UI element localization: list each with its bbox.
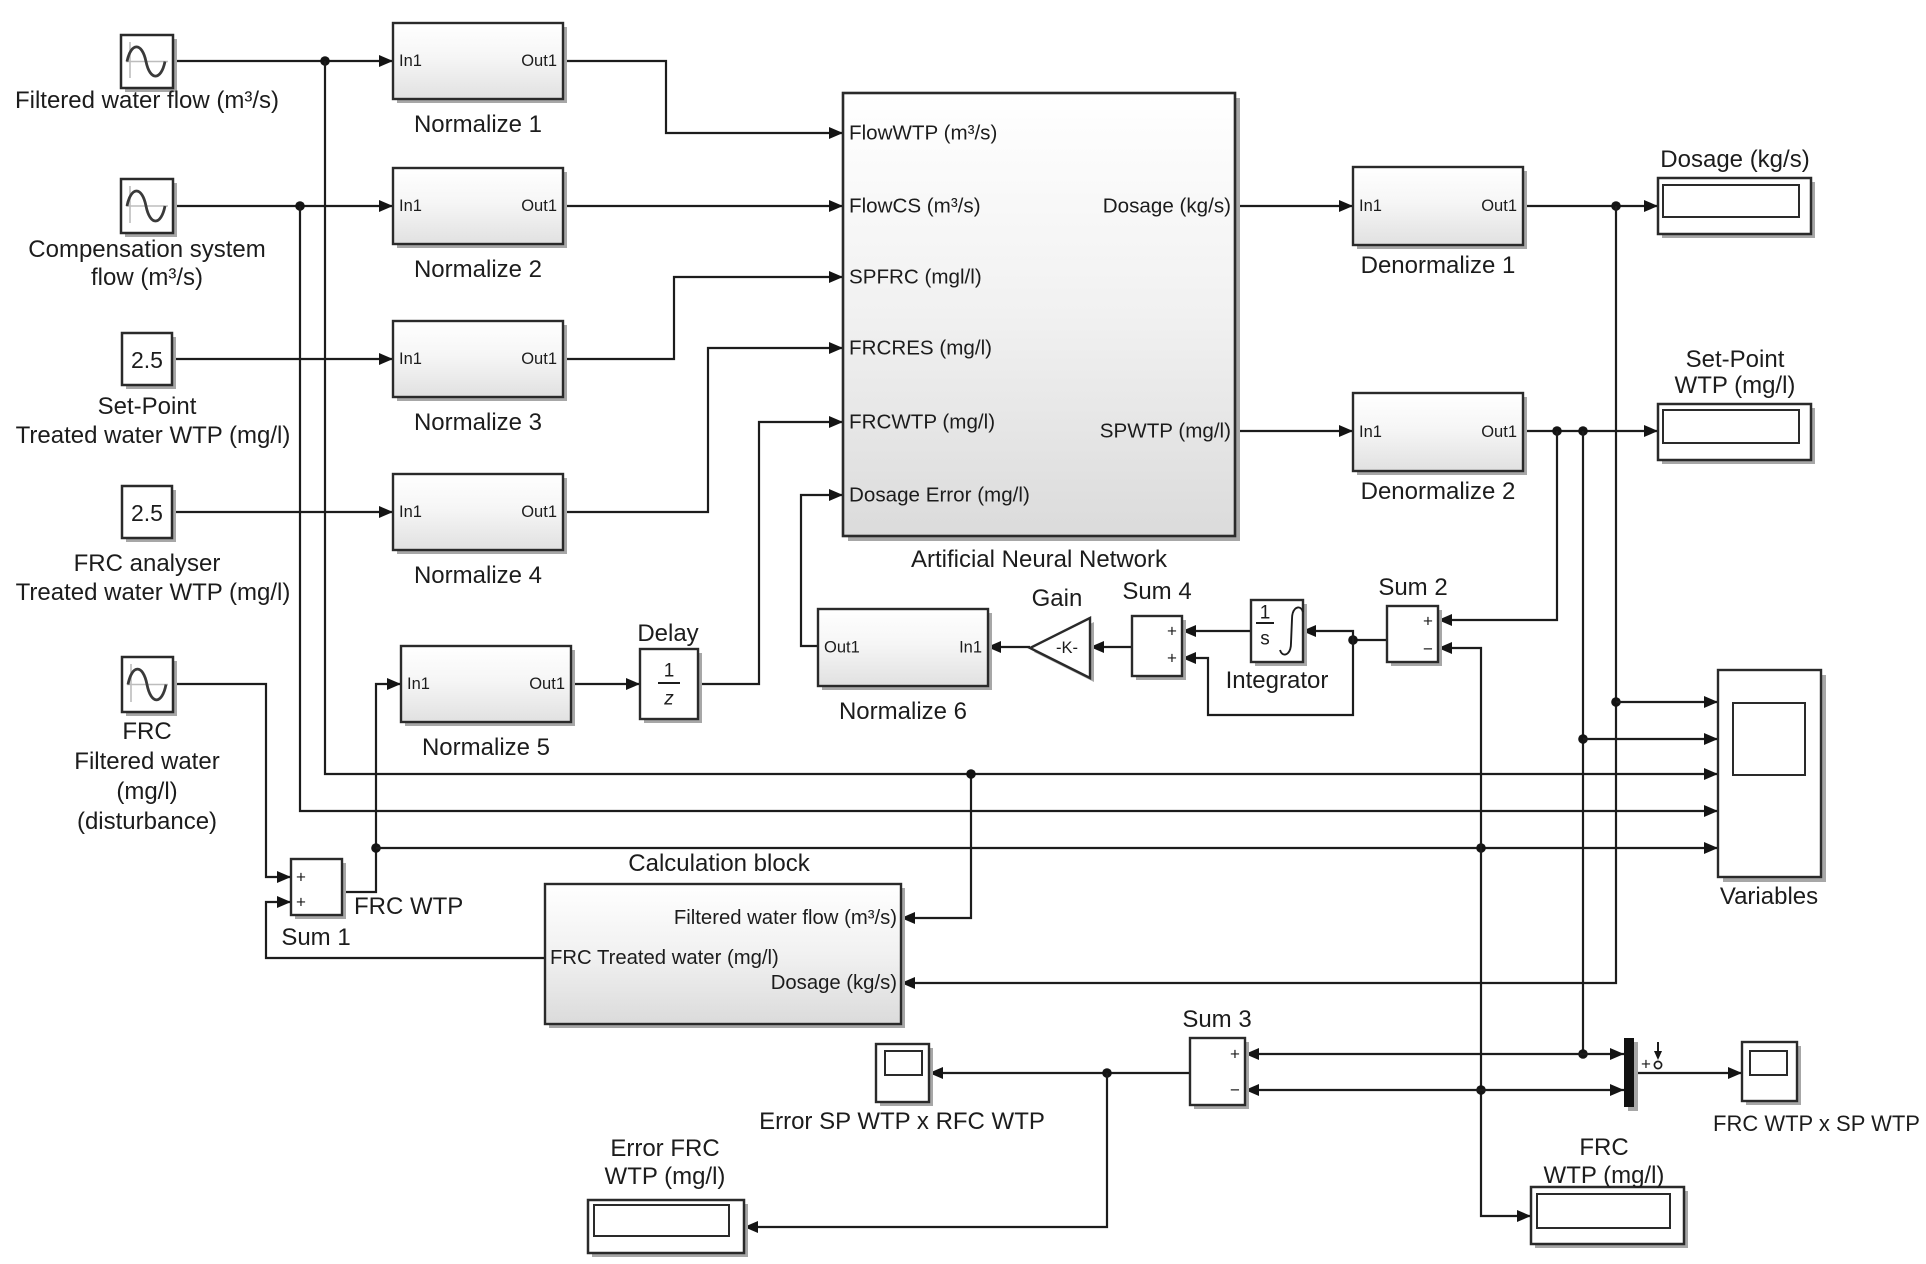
source block Compensation system flow (sine) [121, 179, 177, 237]
subsystem block Normalize 5 [401, 646, 575, 726]
wire: set-point branch to Variables input 2 [1583, 733, 1718, 745]
label Sum 1 [281, 924, 350, 951]
svg-text:+: + [1167, 622, 1177, 641]
svg-text:flow (m³/s): flow (m³/s) [91, 264, 203, 291]
svg-text:FRC WTP: FRC WTP [354, 893, 463, 920]
svg-text:FRC: FRC [122, 718, 171, 745]
label FRC analyser Treated water WTP [16, 550, 291, 606]
label Normalize 1 [414, 111, 542, 138]
label Filtered water flow [15, 87, 279, 114]
wire: feedback junction down to Sum 4 lower input [1182, 640, 1353, 715]
label Sum 4 [1122, 578, 1191, 605]
label Gain [1032, 585, 1083, 612]
wire: compensation branch down long line into Variables input 4 [300, 206, 1718, 817]
svg-text:WTP (mg/l): WTP (mg/l) [1675, 372, 1796, 399]
svg-text:Dosage (kg/s): Dosage (kg/s) [771, 972, 897, 994]
svg-text:FlowWTP (m³/s): FlowWTP (m³/s) [849, 122, 997, 145]
wire: FRC WTP branch up to Sum 2 minus input [1438, 642, 1481, 848]
wire: Delay to ANN FRCWTP [698, 416, 843, 684]
wire: Sum 1 output up to Normalize 5 In1 [342, 678, 401, 892]
wire: dosage branch down to Calculation block Dosage input [901, 206, 1621, 989]
subsystem block Calculation block [545, 884, 905, 1028]
svg-text:In1: In1 [399, 350, 422, 368]
wire: FRC WTP branch down to FRC WTP display [1476, 848, 1531, 1222]
wire: FRC WTP to Sum 3 minus input [1245, 1084, 1481, 1096]
wire: Normalize 3 to ANN SPFRC [563, 271, 843, 359]
wire: FRC WTP long line to Variables input 5 [376, 842, 1718, 854]
label Normalize 3 [414, 409, 542, 436]
label FRC WTP (mg/l) [1544, 1134, 1665, 1189]
wire: dosage branch to Variables input 1 [1616, 696, 1718, 708]
svg-text:FlowCS (m³/s): FlowCS (m³/s) [849, 195, 981, 218]
wire: ANN Dosage out to Denormalize 1 [1235, 200, 1353, 212]
wire: Gain output to Normalize 6 In1 [987, 641, 1030, 653]
svg-text:FRC analyser: FRC analyser [74, 550, 221, 577]
wire: FRC analyser constant to Normalize 4 [172, 506, 393, 518]
svg-text:FRC WTP x SP WTP: FRC WTP x SP WTP [1713, 1111, 1920, 1136]
svg-text:−: − [1423, 640, 1433, 659]
constant block Set-Point 2.5 [122, 333, 176, 389]
label Calculation block [628, 850, 810, 877]
wire: set-point branch down long vertical to Sum 3 level [1578, 431, 1588, 1059]
subsystem block Normalize 4 [393, 474, 567, 554]
wire: set-point branch down to Sum 2 plus input [1438, 431, 1557, 626]
subsystem block Denormalize 1 [1353, 167, 1527, 249]
source block FRC Filtered water disturbance (sine) [122, 657, 177, 716]
svg-text:In1: In1 [407, 675, 430, 693]
svg-text:SPFRC (mgl/l): SPFRC (mgl/l) [849, 266, 982, 289]
svg-text:Normalize 4: Normalize 4 [414, 562, 542, 589]
svg-text:Compensation system: Compensation system [28, 236, 265, 263]
svg-text:In1: In1 [1359, 197, 1382, 215]
svg-text:FRC: FRC [1579, 1134, 1628, 1161]
label Denormalize 1 [1361, 252, 1516, 279]
wire: Integrator output to Sum 4 upper input [1182, 625, 1251, 637]
wire: Normalize 6 to ANN Dosage Error [801, 489, 843, 646]
svg-text:In1: In1 [959, 639, 982, 657]
svg-text:+: + [296, 868, 306, 887]
constant block FRC analyser 2.5 [122, 486, 176, 542]
svg-text:Filtered water: Filtered water [74, 748, 219, 775]
scope block Error SP WTP x RFC WTP [876, 1044, 933, 1106]
display block FRC WTP (mg/l) [1531, 1187, 1688, 1248]
svg-text:Out1: Out1 [824, 639, 860, 657]
wire: Denormalize 1 to Dosage display [1523, 200, 1658, 212]
svg-text:Sum 3: Sum 3 [1182, 1006, 1251, 1033]
svg-text:+: + [1167, 649, 1177, 668]
source block Filtered water flow (sine) [121, 35, 177, 92]
svg-text:In1: In1 [1359, 423, 1382, 441]
svg-text:-K-: -K- [1056, 639, 1078, 657]
wire: filtered flow branch down to Calculation block input [901, 769, 976, 924]
svg-text:Normalize 2: Normalize 2 [414, 256, 542, 283]
svg-text:In1: In1 [399, 197, 422, 215]
display block Error FRC WTP (mg/l) [588, 1200, 748, 1257]
label Normalize 2 [414, 256, 542, 283]
svg-text:Dosage (kg/s): Dosage (kg/s) [1660, 146, 1809, 173]
label Normalize 6 [839, 698, 967, 725]
wire: junction to Integrator input [1302, 625, 1353, 640]
block Delay (1/z) [640, 649, 702, 723]
svg-text:Normalize 5: Normalize 5 [422, 734, 550, 761]
wire: FRC disturbance sine to Sum 1 input 1 [173, 684, 291, 883]
label Sum 3 [1182, 1006, 1251, 1033]
label Variables [1720, 883, 1818, 910]
svg-text:Normalize 1: Normalize 1 [414, 111, 542, 138]
sum block Sum 1 [291, 859, 346, 919]
svg-text:FRC Treated water (mg/l): FRC Treated water (mg/l) [550, 947, 779, 969]
wire: Sum 4 output to Gain input [1090, 641, 1132, 653]
mux block (vertical bar) [1624, 1038, 1662, 1111]
svg-text:In1: In1 [399, 52, 422, 70]
svg-text:1: 1 [1260, 603, 1271, 624]
svg-text:z: z [663, 689, 674, 710]
svg-text:Out1: Out1 [529, 675, 565, 693]
label Set-Point WTP [1675, 346, 1796, 399]
net label FRC WTP [354, 893, 463, 920]
wire: filtered flow branch down long line into Variables input 3 [325, 61, 1718, 780]
svg-text:+: + [1230, 1045, 1240, 1064]
svg-text:2.5: 2.5 [131, 347, 163, 373]
svg-text:Sum 2: Sum 2 [1378, 574, 1447, 601]
label Error FRC WTP (mg/l) [605, 1135, 726, 1190]
svg-text:Variables: Variables [1720, 883, 1818, 910]
display block Set-Point WTP (mg/l) [1658, 404, 1815, 464]
svg-text:Out1: Out1 [521, 350, 557, 368]
svg-text:FRCWTP (mg/l): FRCWTP (mg/l) [849, 411, 995, 434]
wire: Compensation sine to Normalize 2 [173, 200, 393, 212]
wire: ANN SPWTP out to Denormalize 2 [1235, 425, 1353, 437]
wire: Denormalize 2 to Set-Point display [1523, 425, 1658, 437]
svg-text:WTP (mg/l): WTP (mg/l) [605, 1163, 726, 1190]
svg-text:Set-Point: Set-Point [1686, 346, 1785, 373]
gain block -K- [1030, 618, 1094, 682]
label Set-Point Treated water WTP [16, 393, 291, 449]
subsystem block Normalize 1 [393, 23, 567, 103]
wire: set-point to Mux input 1 [1583, 1048, 1624, 1060]
label Error SP WTP x RFC WTP [759, 1108, 1045, 1135]
svg-text:Normalize 3: Normalize 3 [414, 409, 542, 436]
wire: Normalize 2 to ANN FlowCS [563, 200, 843, 212]
svg-text:+: + [1423, 612, 1433, 631]
svg-text:Error FRC: Error FRC [610, 1135, 719, 1162]
svg-text:Gain: Gain [1032, 585, 1083, 612]
svg-text:Normalize 6: Normalize 6 [839, 698, 967, 725]
svg-text:+: + [296, 893, 306, 912]
subsystem block Denormalize 2 [1353, 393, 1527, 475]
svg-text:Filtered water flow (m³/s): Filtered water flow (m³/s) [15, 87, 279, 114]
label Normalize 4 [414, 562, 542, 589]
scope block FRC WTP x SP WTP [1742, 1042, 1801, 1105]
label Artificial Neural Network [911, 546, 1168, 573]
svg-text:SPWTP (mg/l): SPWTP (mg/l) [1100, 420, 1231, 443]
wire: FRC WTP to Mux input 2 [1481, 1084, 1624, 1096]
sum block Sum 2 [1387, 606, 1442, 666]
svg-text:Dosage Error (mg/l): Dosage Error (mg/l) [849, 484, 1030, 507]
svg-text:2.5: 2.5 [131, 500, 163, 526]
subsystem block Normalize 3 [393, 321, 567, 401]
svg-text:Integrator: Integrator [1226, 667, 1329, 694]
svg-text:Out1: Out1 [521, 197, 557, 215]
svg-text:Filtered water flow (m³/s): Filtered water flow (m³/s) [674, 907, 897, 929]
svg-text:+: + [1641, 1055, 1651, 1074]
svg-text:(disturbance): (disturbance) [77, 808, 217, 835]
wire: Filtered water sine to Normalize 1 [173, 55, 393, 67]
label Normalize 5 [422, 734, 550, 761]
sum block Sum 4 [1132, 616, 1186, 680]
wire: Mux output to FRC WTP x SP WTP scope [1634, 1067, 1742, 1079]
svg-text:Calculation block: Calculation block [628, 850, 810, 877]
label FRC WTP x SP WTP [1713, 1111, 1920, 1136]
svg-text:Set-Point: Set-Point [98, 393, 197, 420]
svg-text:Treated water WTP (mg/l): Treated water WTP (mg/l) [16, 422, 291, 449]
wire: Sum 3 output to Error scope [929, 1067, 1190, 1079]
svg-text:1: 1 [664, 661, 675, 682]
subsystem block Normalize 6 (mirrored) [818, 609, 992, 690]
sum block Sum 3 [1190, 1038, 1249, 1109]
label Delay [637, 620, 698, 647]
svg-text:Delay: Delay [637, 620, 698, 647]
svg-text:FRCRES (mg/l): FRCRES (mg/l) [849, 337, 992, 360]
label Denormalize 2 [1361, 478, 1516, 505]
subsystem block Normalize 2 [393, 168, 567, 248]
svg-text:In1: In1 [399, 503, 422, 521]
wire: Calculation block FRC Treated water out to Sum 1 input 2 [266, 896, 545, 958]
svg-text:Dosage (kg/s): Dosage (kg/s) [1103, 195, 1231, 218]
svg-text:Sum 1: Sum 1 [281, 924, 350, 951]
integrator block 1/s (mirrored) [1251, 600, 1307, 666]
label Sum 2 [1378, 574, 1447, 601]
label Integrator [1226, 667, 1329, 694]
svg-text:Artificial Neural Network: Artificial Neural Network [911, 546, 1168, 573]
svg-text:(mg/l): (mg/l) [116, 778, 177, 805]
svg-text:Out1: Out1 [521, 52, 557, 70]
svg-text:Denormalize 2: Denormalize 2 [1361, 478, 1516, 505]
svg-text:Out1: Out1 [521, 503, 557, 521]
wire: error branch down to Error FRC WTP display [744, 1073, 1107, 1233]
label FRC Filtered water disturbance [74, 718, 219, 835]
wire: Normalize 1 to ANN FlowWTP [563, 61, 843, 139]
subsystem block Artificial Neural Network [843, 93, 1240, 541]
svg-text:s: s [1260, 629, 1270, 650]
display block Dosage (kg/s) [1658, 178, 1815, 238]
label Dosage (kg/s) [1660, 146, 1809, 173]
wire: Set-Point constant to Normalize 3 [172, 353, 393, 365]
svg-text:−: − [1230, 1081, 1240, 1100]
svg-text:WTP (mg/l): WTP (mg/l) [1544, 1162, 1665, 1189]
scope block Variables [1718, 670, 1826, 882]
wire: Normalize 5 to Delay [571, 678, 640, 690]
wire: set-point to Sum 3 plus input [1245, 1048, 1583, 1060]
svg-text:Denormalize 1: Denormalize 1 [1361, 252, 1516, 279]
svg-text:Sum 4: Sum 4 [1122, 578, 1191, 605]
label Compensation system flow [28, 236, 265, 291]
svg-text:Out1: Out1 [1481, 197, 1517, 215]
wire: Normalize 4 to ANN FRCRES [563, 342, 843, 512]
svg-text:Error SP WTP x RFC WTP: Error SP WTP x RFC WTP [759, 1108, 1045, 1135]
svg-text:Treated water WTP (mg/l): Treated water WTP (mg/l) [16, 579, 291, 606]
wire: Sum 2 output to junction [1348, 635, 1387, 645]
svg-text:Out1: Out1 [1481, 423, 1517, 441]
